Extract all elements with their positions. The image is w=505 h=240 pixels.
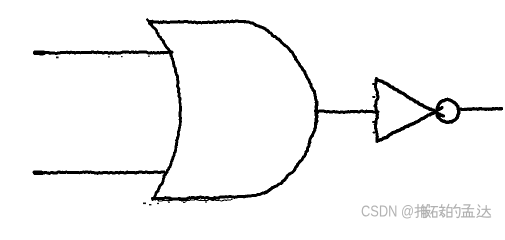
hanzi DA [477, 205, 491, 217]
node: OR gate top-left corner blob [148, 20, 153, 25]
speckles (scan noise) [56, 56, 207, 206]
watermark hanzi 搬砖的孟达 (drawn) [415, 204, 491, 217]
hanzi ZHUAN [431, 205, 445, 217]
OR gate U1 back curve [149, 23, 181, 200]
watermark CSDN [361, 203, 414, 220]
inverter U2 top slant [376, 80, 443, 116]
inverter bubble [437, 99, 459, 122]
wire OR output to inverter [316, 111, 379, 113]
node: OR gate top-left corner tick [147, 20, 151, 25]
node OR output tip [316, 102, 317, 124]
svg-text:CSDN @: CSDN @ [361, 203, 414, 220]
inverter U2 left edge hair ticks [373, 84, 375, 133]
OR gate U1 top edge and upper arc [150, 21, 317, 108]
hanzi DE [447, 204, 460, 217]
OR gate U1 lower arc and bottom edge [153, 112, 317, 199]
OR gate bottom edge echo [158, 199, 232, 201]
wire input A start blob [35, 50, 43, 55]
wire output [460, 109, 502, 110]
hanzi MENG [461, 205, 474, 217]
inverter U2 bottom slant [377, 108, 442, 141]
inverter U2 left edge [375, 79, 378, 142]
wire input B [34, 172, 164, 174]
wire input A [35, 52, 173, 54]
hanzi BAN [415, 205, 430, 218]
node: OR tip / wire junction blob [314, 110, 319, 115]
node: wire A / gate back junction [168, 50, 173, 55]
wire input B start blob [35, 171, 42, 175]
